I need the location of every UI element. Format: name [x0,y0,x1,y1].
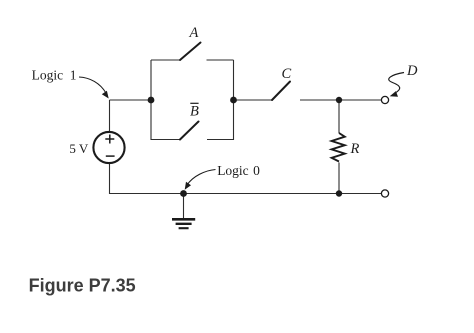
svg-text:R: R [350,141,360,157]
svg-text:Figure P7.35: Figure P7.35 [29,276,136,296]
svg-text:C: C [282,66,292,82]
svg-text:B: B [190,104,199,120]
svg-text:A: A [189,25,199,41]
svg-text:D: D [406,63,418,79]
svg-text:Logic0: Logic0 [217,163,260,178]
svg-text:5 V: 5 V [69,141,89,156]
svg-text:Logic1: Logic1 [32,67,77,82]
